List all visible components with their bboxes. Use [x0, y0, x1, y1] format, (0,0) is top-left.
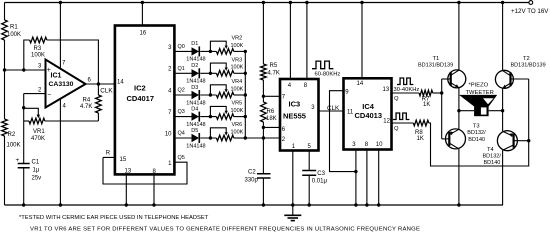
svg-text:R: R	[106, 151, 111, 157]
capacitor C2 330p	[257, 174, 271, 178]
diode D2 1N4148	[192, 69, 200, 77]
wire T4 collector to ground	[502, 150, 504, 205]
wire left rail segments	[4, 3, 6, 206]
capacitor C1	[18, 164, 30, 168]
svg-text:100K: 100K	[31, 52, 45, 58]
waveform 60-80KHz	[312, 61, 333, 69]
svg-text:R2: R2	[8, 132, 16, 138]
svg-text:VR6: VR6	[232, 122, 243, 128]
svg-text:BD140: BD140	[468, 137, 485, 143]
diode D1 1N4148	[192, 47, 200, 55]
svg-text:1N4148: 1N4148	[186, 143, 205, 149]
svg-text:−: −	[47, 92, 51, 99]
resistor R5	[261, 64, 267, 80]
svg-text:4.7K: 4.7K	[80, 104, 92, 110]
svg-text:Q4: Q4	[178, 131, 185, 137]
svg-text:100K: 100K	[231, 129, 244, 135]
svg-text:11: 11	[347, 110, 354, 116]
svg-text:16: 16	[140, 31, 147, 37]
preset VR1	[23, 108, 25, 164]
wire pin 6 stub	[263, 126, 280, 128]
wire VR1 to R4 bottom	[45, 120, 99, 122]
wire pin 3 to ground	[355, 150, 357, 206]
wire T1 emitter to speaker node	[458, 88, 460, 130]
svg-text:D1: D1	[191, 41, 198, 47]
node Q1 pin 2 stub	[174, 72, 191, 74]
wire D3 cathode to VR4	[200, 94, 216, 96]
node Q2 pin 4 stub	[174, 94, 191, 96]
svg-text:T4: T4	[487, 147, 495, 153]
svg-text:10: 10	[165, 131, 172, 137]
wire pin 6 output to IC2 clock	[86, 83, 115, 85]
wire T2 emitter to speaker node	[502, 88, 504, 131]
svg-text:R1: R1	[10, 25, 18, 31]
wire T3 collector to ground	[458, 149, 460, 205]
wire pin 7 stub	[263, 95, 280, 97]
node Q3 pin 7 stub	[174, 116, 191, 118]
wire VR3 to bus	[234, 72, 246, 74]
wire R8 to T2 T4 base tie	[429, 79, 529, 166]
svg-text:T1: T1	[433, 56, 440, 62]
svg-text:BD132/: BD132/	[483, 153, 502, 159]
svg-text:18K: 18K	[266, 116, 277, 122]
svg-text:25v: 25v	[32, 176, 42, 182]
svg-text:+12V TO 16V: +12V TO 16V	[511, 8, 549, 15]
svg-text:14: 14	[117, 79, 124, 85]
svg-text:60-80KHz: 60-80KHz	[315, 72, 341, 78]
svg-text:1K: 1K	[423, 102, 430, 108]
wire pin 13 to ground	[125, 174, 127, 205]
wire VR6 to bus	[234, 137, 246, 139]
wire R5 column from supply	[262, 3, 264, 65]
svg-text:Q2: Q2	[178, 88, 185, 94]
wire IC3 pin 3 output to IC4 clock pin 11	[319, 110, 344, 112]
svg-text:R4: R4	[83, 98, 91, 104]
ground symbol	[292, 205, 294, 215]
wire pin 10 to ground	[378, 150, 380, 206]
svg-text:CLK: CLK	[100, 88, 113, 95]
svg-text:VR4: VR4	[232, 79, 243, 85]
svg-text:BD131/BD139: BD131/BD139	[418, 62, 453, 68]
svg-text:C3: C3	[317, 171, 325, 177]
wire pin 8 to ground	[366, 150, 368, 206]
resistor R6	[261, 102, 267, 122]
wire pin 4 to ground	[59, 99, 61, 205]
svg-text:Q: Q	[394, 126, 399, 132]
svg-text:D5: D5	[191, 128, 198, 134]
resistor R1	[2, 20, 8, 40]
capacitor C3 0.01u	[302, 171, 316, 176]
wire D2 cathode to VR3	[200, 72, 216, 74]
wire R3 left lead to pin3 node	[24, 40, 30, 70]
svg-text:0.01μ: 0.01μ	[312, 179, 328, 185]
svg-text:IC1: IC1	[51, 73, 62, 80]
wire R6 to C2	[262, 122, 264, 174]
node +12V terminal	[529, 1, 533, 5]
waveform 30-40KHz	[397, 78, 413, 85]
wire pin 4 to supply	[289, 3, 291, 80]
IC IC2 CD4017 box	[115, 26, 174, 175]
svg-text:1N4148: 1N4148	[186, 79, 205, 85]
wire D4 cathode to VR5	[200, 116, 216, 118]
preset VR5 100K	[210, 106, 226, 116]
svg-text:1μ: 1μ	[33, 168, 40, 174]
svg-text:BD140: BD140	[484, 160, 501, 166]
diode D5 1N4148	[192, 134, 200, 142]
svg-text:1K: 1K	[417, 136, 424, 142]
IC IC4 CD4013 box	[344, 78, 392, 149]
svg-text:13: 13	[125, 168, 132, 174]
transistor T3 BD132/BD140	[446, 129, 466, 149]
wire pin 2 input	[24, 94, 46, 108]
svg-text:100K: 100K	[7, 143, 21, 149]
resistor R8 1K	[413, 120, 429, 126]
svg-text:BD132/: BD132/	[467, 130, 486, 136]
wire +12V top supply rail	[5, 2, 530, 4]
wire T2 collector to supply	[502, 3, 504, 71]
svg-text:12: 12	[383, 119, 390, 125]
svg-text:100K: 100K	[231, 65, 244, 71]
node Q4 pin 10 stub	[174, 137, 191, 139]
svg-text:D3: D3	[191, 85, 198, 91]
svg-text:100K: 100K	[7, 32, 21, 38]
svg-text:VR2: VR2	[232, 36, 243, 42]
svg-text:*PIEZO: *PIEZO	[469, 83, 489, 89]
wire pin 16 to supply	[141, 3, 143, 26]
svg-text:BD131/BD139: BD131/BD139	[511, 62, 546, 68]
svg-text:D2: D2	[191, 63, 198, 69]
wire VR1 wiper	[24, 108, 39, 115]
transistor T2 BD131/BD139	[495, 70, 513, 88]
wire R7 to T1 T3 base tie	[433, 92, 442, 94]
diode D4 1N4148	[192, 112, 200, 120]
svg-text:VR1: VR1	[33, 129, 45, 135]
svg-text:VR3: VR3	[232, 57, 243, 63]
resistor R7 1K	[419, 90, 433, 96]
wire pin 8 to ground	[153, 174, 155, 205]
wire R3 right lead to output node	[47, 40, 99, 84]
svg-text:14: 14	[357, 81, 364, 87]
resistor R4	[97, 84, 99, 95]
preset VR2 100K	[210, 41, 226, 51]
svg-text:D4: D4	[191, 106, 198, 112]
svg-text:13: 13	[383, 87, 390, 93]
svg-text:100K: 100K	[231, 86, 244, 92]
svg-text:CD4017: CD4017	[127, 94, 155, 103]
svg-text:1N4148: 1N4148	[186, 100, 205, 106]
svg-text:CD4013: CD4013	[355, 111, 383, 120]
svg-text:1N4148: 1N4148	[186, 57, 205, 63]
wire VR2 to bus	[234, 50, 246, 52]
wire pin 7 to supply	[59, 3, 61, 69]
svg-text:10: 10	[376, 142, 383, 148]
wire pin 14 to supply	[361, 3, 363, 79]
svg-text:T2: T2	[523, 56, 530, 62]
transistor T4 BD132/BD140	[497, 131, 517, 151]
svg-text:Q3: Q3	[178, 109, 185, 115]
svg-text:R3: R3	[34, 46, 42, 52]
wire T1 T3 base tie	[441, 79, 443, 139]
svg-text:C2: C2	[248, 170, 256, 176]
svg-text:C1: C1	[32, 160, 40, 166]
wire VR4 to bus	[234, 94, 246, 96]
svg-text:VR5: VR5	[232, 101, 243, 107]
svg-text:Q5: Q5	[178, 155, 185, 161]
svg-text:TWEETER: TWEETER	[466, 90, 494, 96]
wire pin 9 loop to ground line	[330, 91, 356, 172]
svg-text:IC4: IC4	[362, 102, 375, 111]
preset VR4 100K	[210, 85, 226, 95]
preset VR3 100K	[210, 63, 226, 73]
wire T1 collector to supply	[458, 3, 460, 71]
waveform Q-bar output	[393, 113, 409, 120]
wire pin 5 to C3	[308, 151, 310, 171]
svg-text:4.7K: 4.7K	[268, 71, 280, 77]
wire pin 8 to supply	[306, 3, 308, 80]
wire VR summing bus	[244, 51, 246, 138]
node Q5 pin 1 to reset loop	[103, 157, 187, 184]
wire pin 13 Q to R7	[392, 92, 420, 94]
svg-text:CA3130: CA3130	[49, 81, 74, 88]
svg-text:30-40KHz: 30-40KHz	[394, 87, 420, 93]
op-amp IC1 CA3130	[46, 60, 86, 108]
svg-text:100K: 100K	[231, 108, 244, 114]
svg-text:R5: R5	[270, 63, 278, 69]
svg-text:15: 15	[120, 157, 127, 163]
diode D3 1N4148	[192, 91, 200, 99]
svg-text:100K: 100K	[231, 43, 244, 49]
wire bus to IC3 pin2 column	[245, 137, 263, 139]
wire pin 2 stub	[263, 137, 280, 139]
wire pin 1 to ground	[292, 151, 294, 206]
svg-text:VR1 TO VR6 ARE SET FOR DIFFERE: VR1 TO VR6 ARE SET FOR DIFFERENT VALUES …	[30, 227, 420, 233]
wire D5 cathode to VR6	[200, 137, 216, 139]
svg-text:IC2: IC2	[134, 84, 146, 93]
wire VR5 to bus	[234, 116, 246, 118]
svg-text:NE555: NE555	[283, 112, 306, 121]
svg-text:470K: 470K	[31, 136, 45, 142]
wire R5 to R6 junction pin 7	[262, 80, 264, 102]
preset VR6 100K	[210, 128, 226, 138]
svg-text:Q1: Q1	[178, 66, 185, 72]
wire pin 12 Q-bar to R8	[392, 122, 414, 124]
svg-text:R6: R6	[267, 109, 275, 115]
IC IC3 NE555 box	[280, 79, 319, 151]
node Q0 pin 3 stub	[174, 50, 191, 52]
speaker piezo tweeter	[459, 110, 474, 112]
resistor R2	[2, 119, 8, 136]
resistor R3	[30, 37, 47, 43]
transistor T1 BD131/BD139	[448, 70, 466, 88]
wire pin 3 input	[5, 69, 46, 71]
svg-text:*TESTED WITH CERMIC EAR PIECE: *TESTED WITH CERMIC EAR PIECE USED IN TE…	[19, 215, 209, 221]
svg-text:Q: Q	[394, 96, 399, 102]
svg-text:IC3: IC3	[289, 100, 301, 109]
svg-text:Q0: Q0	[178, 44, 185, 50]
wire ground bottom rail	[5, 204, 504, 206]
wire D1 cathode to VR2	[200, 50, 216, 52]
svg-text:+: +	[16, 157, 20, 164]
svg-text:330p: 330p	[245, 178, 259, 184]
svg-text:T3: T3	[473, 124, 480, 130]
